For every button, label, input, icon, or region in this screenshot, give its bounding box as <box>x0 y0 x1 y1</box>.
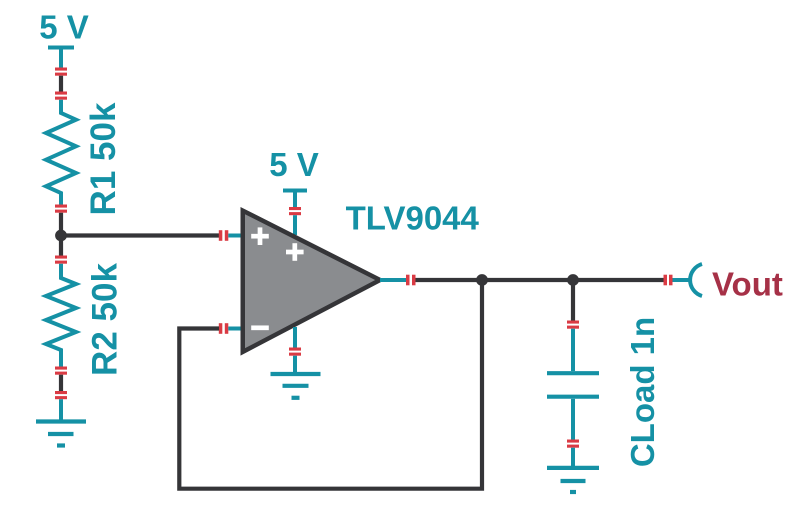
wire lead V+ <box>293 215 297 235</box>
pin tick supply left <box>55 68 67 76</box>
ground symbol (R2) <box>36 399 86 445</box>
label R2 50k <box>86 263 125 376</box>
pin tick R1 top <box>55 92 67 100</box>
wire R2 to ground <box>59 375 63 391</box>
wire Vout lead <box>673 278 692 282</box>
power supply symbol 5V (op-amp) <box>283 191 307 208</box>
pin tick R1 bottom <box>55 205 67 213</box>
ground symbol (op-amp) <box>271 356 321 398</box>
node C junction dot (CLoad tap) <box>567 274 579 286</box>
wire lead -IN <box>228 327 242 331</box>
wire R1 to node A <box>59 213 63 256</box>
wire lead OUT <box>380 278 406 282</box>
svg-text:CLoad 1n: CLoad 1n <box>624 317 661 467</box>
wire lead V- (op-amp bottom) <box>293 327 297 348</box>
wire CLoad top <box>571 280 575 321</box>
svg-text:Vout: Vout <box>712 266 783 303</box>
wire OUT to Vout <box>416 278 664 282</box>
wire feedback loop <box>179 280 482 489</box>
pin tick op-amp +IN <box>219 230 229 241</box>
pin tick R2 top <box>55 256 67 264</box>
op-amp V+ marker <box>286 243 304 261</box>
label Vout <box>712 266 783 303</box>
wire node A to op-amp +IN <box>61 233 219 237</box>
pin tick ground (R2) <box>55 391 67 399</box>
node V5_OPAMP label <box>269 146 319 183</box>
op-amp U1 triangle <box>243 211 380 352</box>
pin tick CLoad bottom <box>567 440 579 448</box>
pin tick CLoad top <box>567 321 579 329</box>
resistor R2 <box>46 264 76 367</box>
svg-text:5 V: 5 V <box>39 9 89 46</box>
label R1 50k <box>84 102 123 215</box>
op-amp +IN marker <box>251 227 269 245</box>
wire supply to R1 <box>59 76 63 92</box>
svg-text:TLV9044: TLV9044 <box>346 200 480 237</box>
svg-text:R2 50k: R2 50k <box>86 263 125 376</box>
resistor R1 <box>46 100 76 205</box>
capacitor CLoad <box>547 329 599 440</box>
wire lead +IN <box>228 234 242 238</box>
ground symbol (CLoad) <box>547 448 599 492</box>
pin tick op-amp OUT <box>406 275 416 286</box>
pin tick Vout port <box>664 275 673 286</box>
node A junction dot <box>55 230 67 242</box>
node V5_LEFT label <box>39 9 89 46</box>
pin tick op-amp V+ <box>289 207 301 215</box>
svg-text:R1 50k: R1 50k <box>84 102 123 215</box>
power supply symbol 5V (left) <box>48 48 74 68</box>
svg-text:5 V: 5 V <box>269 146 319 183</box>
output port symbol Vout <box>690 264 702 296</box>
pin tick op-amp -IN <box>219 323 229 334</box>
node B junction dot (feedback tap) <box>476 274 488 286</box>
pin tick op-amp V- <box>289 348 301 356</box>
pin tick R2 bottom <box>55 367 67 375</box>
label CLoad 1n <box>624 317 661 467</box>
label TLV9044 <box>346 200 480 237</box>
op-amp -IN marker <box>251 325 269 330</box>
